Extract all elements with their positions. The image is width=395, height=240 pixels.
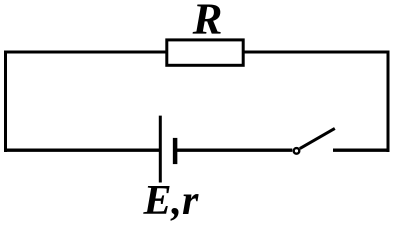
svg-text:R: R	[192, 0, 223, 43]
switch pivot circle	[294, 148, 300, 154]
wire bottom segment from left corner to battery	[4, 149, 160, 152]
wire top segment left of resistor	[4, 51, 167, 54]
wire bottom segment from battery to switch	[175, 149, 292, 152]
switch lever arm	[300, 128, 335, 148]
wire left vertical	[4, 51, 7, 153]
wire top segment right of resistor	[243, 51, 390, 54]
wire right vertical	[387, 51, 390, 153]
wire bottom segment right of switch	[333, 149, 390, 152]
svg-text:E,r: E,r	[143, 178, 200, 224]
battery E long plate (positive)	[159, 116, 162, 183]
resistor R	[167, 40, 243, 65]
battery E short plate (negative)	[173, 138, 178, 164]
